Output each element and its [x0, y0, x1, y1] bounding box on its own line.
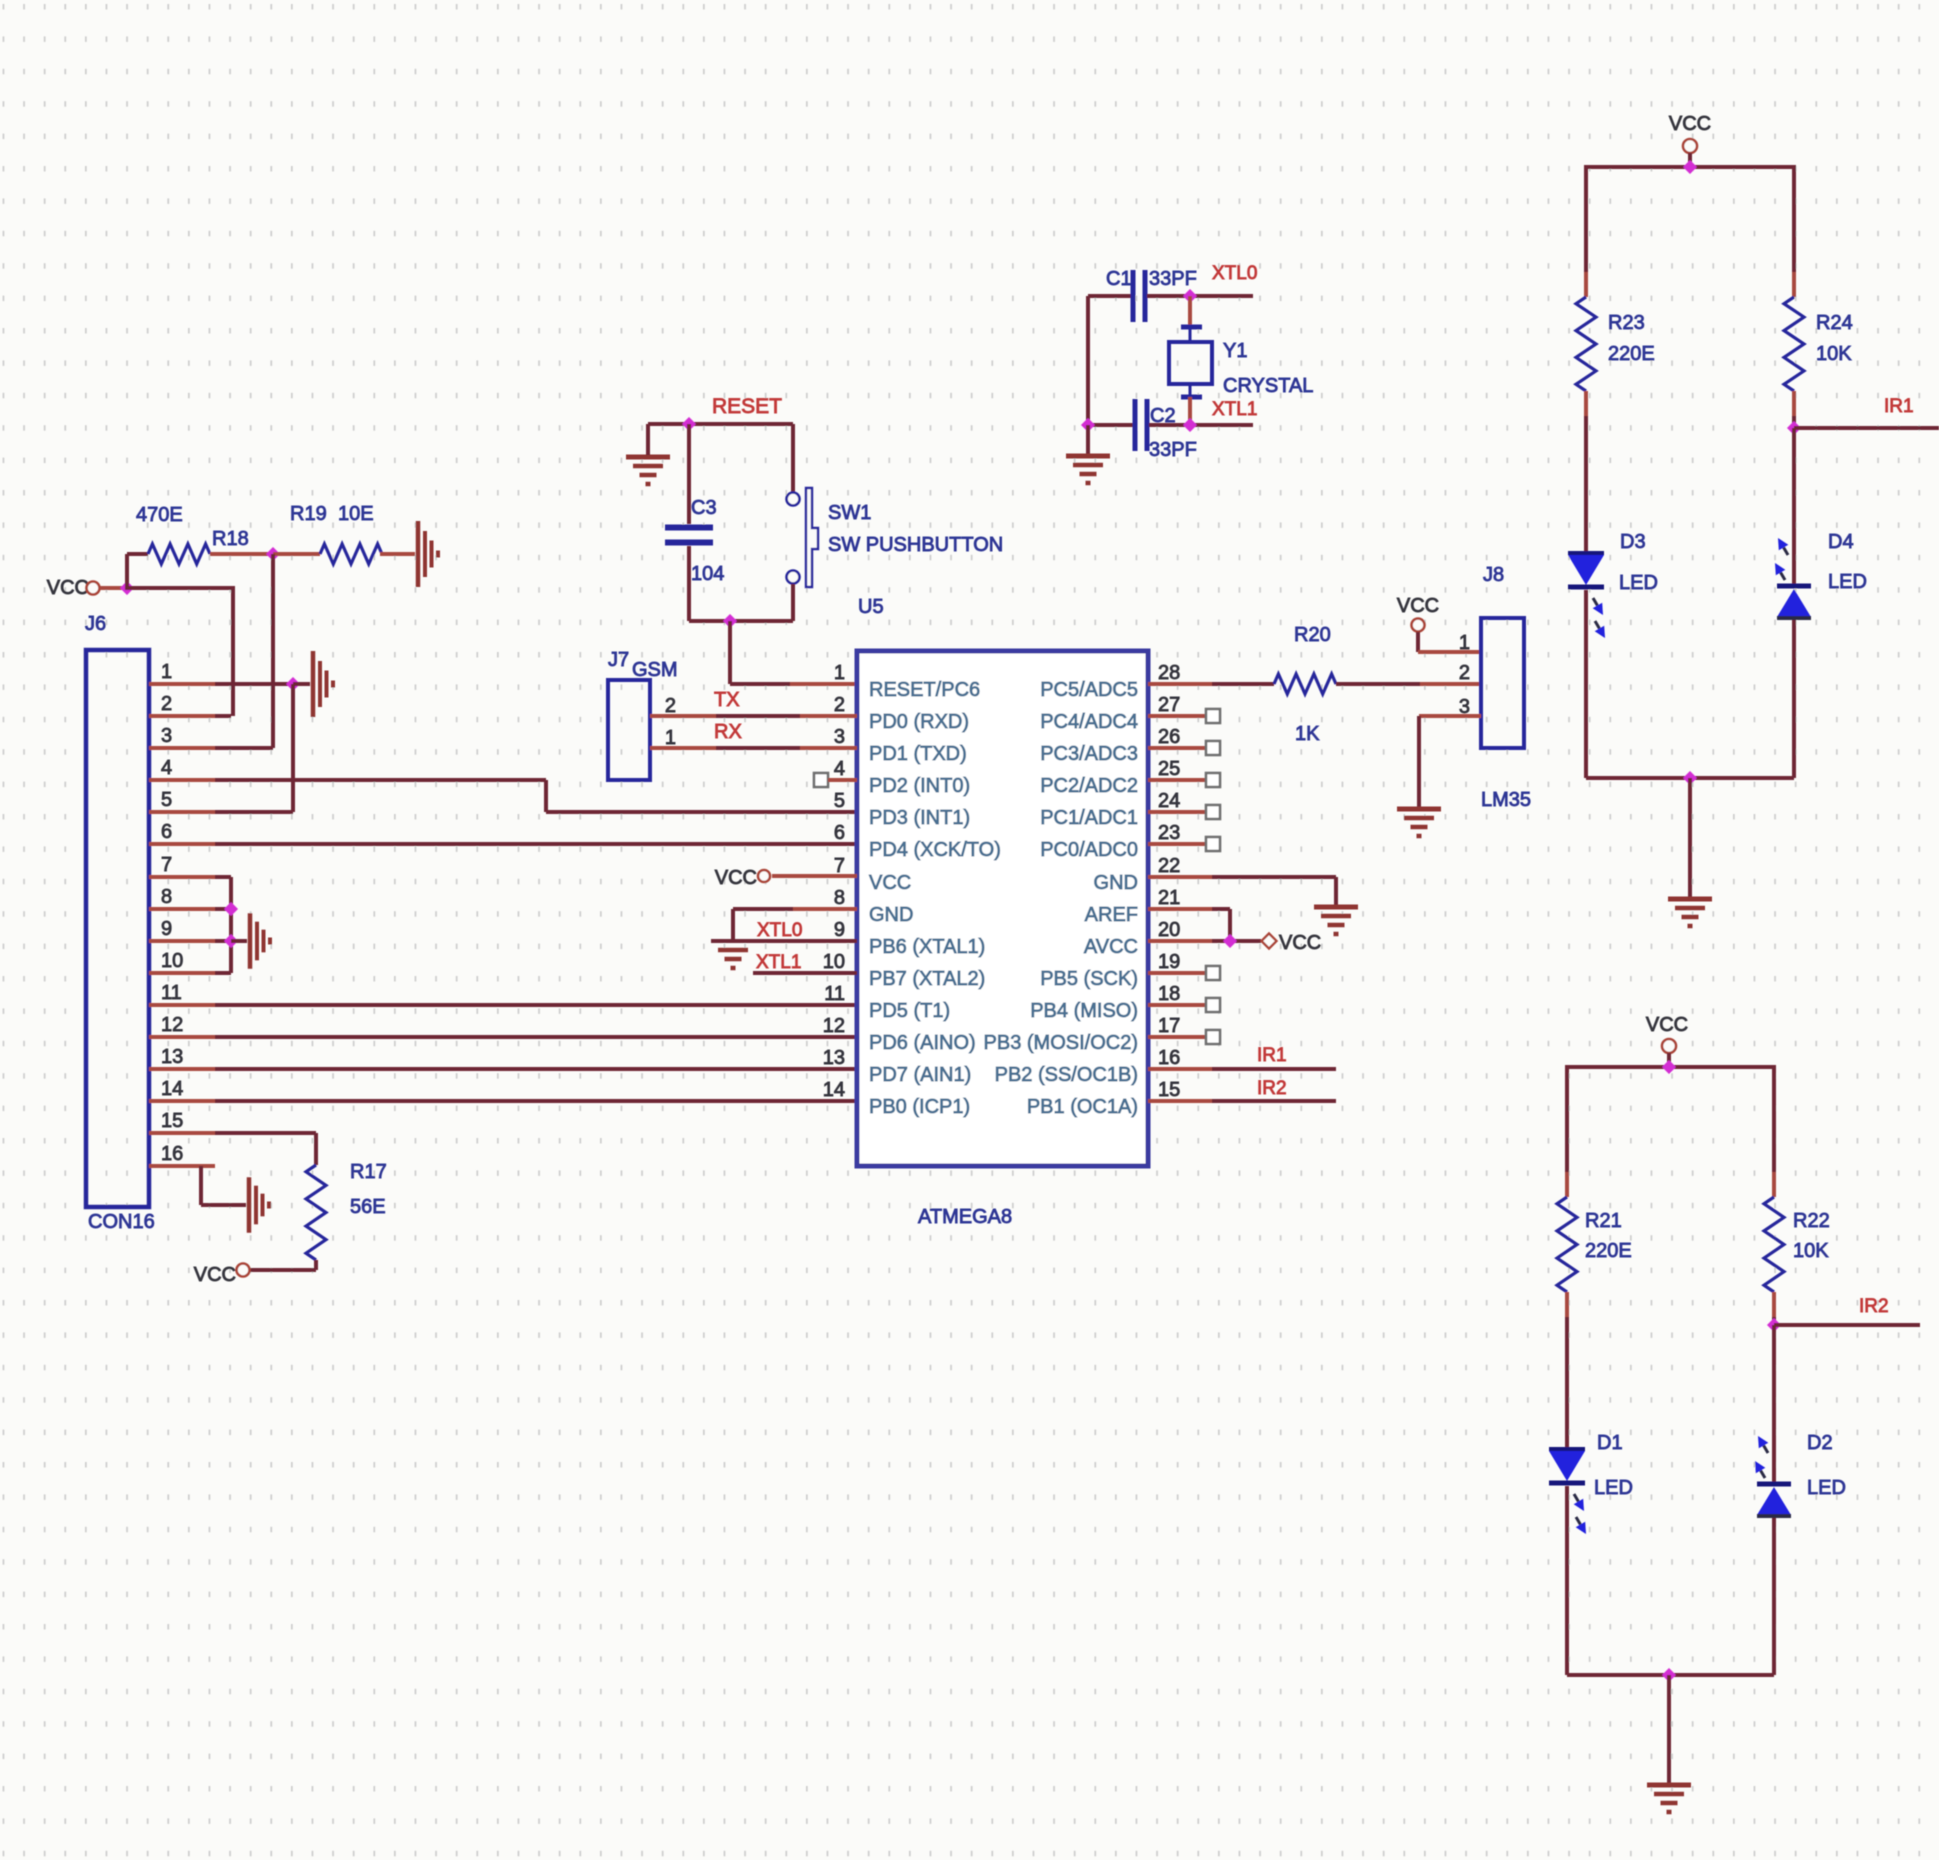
pin number 9 (U5) — [834, 919, 845, 941]
wire IR2 node to D2 — [1772, 1325, 1776, 1482]
svg-text:VCC: VCC — [1669, 113, 1711, 135]
svg-text:8: 8 — [834, 887, 845, 909]
pin number 22 (U5) — [1158, 855, 1180, 877]
pin number 7 (J6) — [161, 854, 172, 876]
value 220E — [1608, 343, 1655, 365]
junction RESET/C3 node — [682, 417, 696, 431]
wire J6 pin11 to IC pin11 PD5 — [215, 1003, 857, 1007]
value 33PF (C1) — [1149, 268, 1197, 290]
wire R23 top lead — [1584, 272, 1588, 297]
svg-text:22: 22 — [1158, 855, 1180, 877]
svg-text:LED: LED — [1594, 1477, 1633, 1499]
svg-text:15: 15 — [161, 1110, 183, 1132]
svg-text:21: 21 — [1158, 887, 1180, 909]
value LED (D4) — [1828, 571, 1867, 593]
svg-text:PC2/ADC2: PC2/ADC2 — [1040, 775, 1138, 797]
value 220E (R21) — [1585, 1240, 1632, 1262]
wire J6 pin6 to IC pin6 PD4 (stub) — [149, 842, 215, 846]
svg-text:2: 2 — [834, 694, 845, 716]
wire to ground symbol (pins7-10) — [231, 939, 247, 943]
wire C1 left lead — [1088, 294, 1131, 298]
IC U5 ATMEGA8 body — [857, 651, 1148, 1166]
wire J6 pin10 to gnd bus — [215, 971, 231, 975]
resistor R22 — [1764, 1197, 1784, 1292]
wire IC pin1 stub — [790, 682, 857, 686]
svg-text:5: 5 — [834, 790, 845, 812]
svg-text:C3: C3 — [691, 497, 717, 519]
wire IR1 node to D4 — [1792, 428, 1796, 584]
ground (RESET net) — [626, 457, 670, 484]
svg-text:10K: 10K — [1816, 343, 1852, 365]
resistor R24 — [1784, 297, 1804, 391]
svg-text:26: 26 — [1158, 726, 1180, 748]
wire VCC node up to R18 — [125, 554, 129, 590]
junction IR1 node — [1787, 421, 1801, 435]
wire U5 pin4 stub — [828, 778, 857, 782]
svg-text:PC4/ADC4: PC4/ADC4 — [1040, 711, 1138, 733]
wire D1 to bottom bus — [1565, 1486, 1569, 1675]
junction R18/R19/pin3 node — [266, 547, 280, 561]
svg-text:27: 27 — [1158, 694, 1180, 716]
wire down to ground (crystal) — [1086, 425, 1090, 455]
svg-text:12: 12 — [161, 1014, 183, 1036]
no-connect square (U5 pin 4 PD2) — [814, 773, 828, 787]
svg-text:J8: J8 — [1483, 564, 1504, 586]
pin 1 name RESET/PC6 (U5) — [869, 679, 980, 701]
label Y1 — [1223, 340, 1247, 362]
label SW1 — [828, 502, 871, 524]
value ATMEGA8 — [918, 1206, 1012, 1228]
power VCC (R17 bottom) — [194, 1264, 250, 1287]
value 470E — [136, 504, 183, 526]
pin 3 name PD1 (TXD) (U5) — [869, 743, 967, 765]
svg-text:10: 10 — [161, 950, 183, 972]
svg-text:LM35: LM35 — [1481, 789, 1531, 811]
ground (U5 pin22) — [1314, 907, 1358, 934]
wire J6 pin7 to gnd bus (stub) — [149, 875, 215, 879]
wire J6 pin2 to VCC drop — [215, 714, 231, 718]
wire pin22 GND run — [1212, 875, 1336, 879]
pin 5 name PD3 (INT1) (U5) — [869, 807, 970, 829]
wire J6 pin15 to R17 — [215, 1131, 316, 1135]
wire R18 left lead — [127, 552, 148, 556]
pin 11 name PD5 (T1) (U5) — [869, 1000, 950, 1022]
wire J6 pin14 to IC pin14 PB0 — [215, 1099, 857, 1103]
wire ground up — [646, 424, 650, 455]
value 10E — [338, 503, 374, 525]
power VCC (IR2 block) — [1646, 1014, 1688, 1053]
wire caps left vertical — [1086, 296, 1090, 425]
svg-text:PB4 (MISO): PB4 (MISO) — [1030, 1000, 1138, 1022]
svg-text:10: 10 — [823, 951, 845, 973]
pin 8 name GND (U5) — [869, 904, 913, 926]
svg-text:TX: TX — [714, 689, 740, 711]
wire J6 pin13 to IC pin13 PD7 — [215, 1067, 857, 1071]
label R22 — [1793, 1210, 1830, 1232]
svg-text:J7: J7 — [608, 649, 629, 671]
svg-text:9: 9 — [161, 918, 172, 940]
svg-text:VCC: VCC — [715, 867, 757, 889]
resistor R19 — [320, 544, 382, 564]
power VCC (U5 pin 7) — [715, 867, 770, 889]
wire J6 pin5 to ground node — [215, 810, 293, 814]
wire J6 pin5 to ground node (stub) — [149, 810, 215, 814]
net label RX — [714, 721, 742, 743]
svg-text:RESET: RESET — [712, 395, 782, 418]
LED D4 (photodiode) — [1775, 538, 1811, 618]
pin number 5 (U5) — [834, 790, 845, 812]
svg-text:SW1: SW1 — [828, 502, 871, 524]
wire R17 top lead — [314, 1133, 318, 1165]
wire J7 pin2 stub — [650, 714, 716, 718]
svg-text:PD4 (XCK/TO): PD4 (XCK/TO) — [869, 839, 1001, 861]
svg-text:7: 7 — [834, 855, 845, 877]
resistor R21 — [1557, 1197, 1577, 1292]
wire D3 to bottom bus — [1584, 590, 1588, 778]
pin number 7 (U5) — [834, 855, 845, 877]
svg-text:11: 11 — [824, 983, 845, 1005]
ground (IR2 block) — [1647, 1785, 1691, 1812]
wire J6 pin15 to R17 (stub) — [149, 1131, 215, 1135]
wire RX to U5 pin3 — [716, 746, 800, 750]
label CON16 — [88, 1211, 155, 1233]
net label IR1 (U5 pin16) — [1257, 1045, 1287, 1066]
svg-text:PC5/ADC5: PC5/ADC5 — [1040, 679, 1138, 701]
wire left branch down — [1584, 165, 1588, 272]
no-connect square (U5 pin 17) — [1206, 1030, 1220, 1044]
pin 14 name PB0 (ICP1) (U5) — [869, 1096, 970, 1118]
svg-text:1: 1 — [1459, 632, 1470, 654]
svg-text:GND: GND — [869, 904, 913, 926]
pin 9 name PB6 (XTAL1) (U5) — [869, 936, 985, 958]
wire R17 to VCC — [250, 1268, 316, 1272]
svg-text:SW PUSHBUTTON: SW PUSHBUTTON — [828, 534, 1003, 556]
label D3 — [1620, 531, 1646, 553]
label R17 — [350, 1161, 387, 1183]
wire RX stub at U5 — [800, 746, 857, 750]
wire R21 bottom lead — [1565, 1292, 1569, 1317]
pin number 9 (J6) — [161, 918, 172, 940]
svg-text:XTL0: XTL0 — [1212, 263, 1257, 284]
pin 6 name PD4 (XCK/TO) (U5) — [869, 839, 1001, 861]
pin 13 name PD7 (AIN1) (U5) — [869, 1064, 971, 1086]
wire C3 top lead — [687, 424, 691, 524]
no-connect square (U5 pin 25) — [1206, 773, 1220, 787]
wire SW1 bottom lead — [791, 584, 795, 621]
wire right branch down (IR2) — [1772, 1065, 1776, 1172]
pin 15 name PB1 (OC1A) (U5) — [1027, 1096, 1138, 1118]
pin 7 name VCC (U5) — [869, 872, 911, 894]
value 33PF (C2) — [1149, 439, 1197, 461]
pin 24 name PC1/ADC1 (U5) — [1040, 807, 1138, 829]
svg-text:2: 2 — [161, 693, 172, 715]
svg-text:XTL1: XTL1 — [1212, 399, 1257, 420]
svg-text:56E: 56E — [350, 1196, 386, 1218]
wire crystal bottom lead — [1188, 397, 1192, 425]
value LM35 — [1481, 789, 1531, 811]
wire J8 pin2 stub — [1420, 682, 1481, 686]
wire C2 left lead — [1088, 423, 1133, 427]
wire IR2 net right — [1774, 1323, 1920, 1327]
wire C2 to XTL1 — [1149, 423, 1253, 427]
wire ground node down to pin5 row — [291, 684, 295, 812]
pin number 8 (J6) — [161, 886, 172, 908]
ground (J6 pin16) — [249, 1177, 269, 1232]
wire J6 pin12 to IC pin12 PD6 — [215, 1035, 857, 1039]
wire jog to IC pin5 PD3 — [546, 810, 857, 814]
svg-text:7: 7 — [161, 854, 172, 876]
wire U5 pin15 stub — [1148, 1099, 1212, 1103]
pin number 18 (U5) — [1158, 983, 1180, 1005]
wire C1 to XTL0 — [1147, 294, 1253, 298]
svg-text:1: 1 — [834, 662, 845, 684]
ground (U5 pin8/9) — [718, 950, 748, 968]
capacitor C1 — [1131, 270, 1148, 322]
pin number 11 (J6) — [161, 982, 182, 1004]
pin number 2 (J6) — [161, 693, 172, 715]
wire down to ground (IR2) — [1667, 1675, 1671, 1783]
net label XTL1 (crystal) — [1212, 399, 1257, 420]
svg-text:24: 24 — [1158, 790, 1180, 812]
net label XTL0 (U5 pin9) — [757, 920, 802, 941]
wire J6 pin8 to gnd bus — [215, 907, 231, 911]
switch SW1 (pushbutton) — [787, 488, 819, 587]
svg-text:Y1: Y1 — [1223, 340, 1247, 362]
wire J8 pin3 down to ground — [1417, 716, 1421, 807]
svg-text:3: 3 — [834, 726, 845, 748]
wire R24 bottom lead — [1792, 391, 1796, 416]
svg-text:14: 14 — [823, 1079, 845, 1101]
wire VCC to bus — [1688, 153, 1692, 167]
connector J6 (CON16) — [86, 650, 149, 1207]
wire R18 to junction — [210, 552, 273, 556]
label J8 — [1483, 564, 1504, 586]
wire pin8 left — [733, 907, 793, 911]
pin number 1 (J8) — [1459, 632, 1470, 654]
wire IR2 top bus — [1567, 1065, 1774, 1069]
ground (IR1 block) — [1668, 899, 1712, 926]
label R19 — [290, 503, 327, 525]
svg-text:GSM: GSM — [632, 659, 678, 681]
pin 17 name PB3 (MOSI/OC2) (U5) — [984, 1032, 1138, 1054]
wire pin16 drop — [199, 1166, 203, 1205]
pin 4 name PD2 (INT0) (U5) — [869, 775, 970, 797]
svg-text:PD3 (INT1): PD3 (INT1) — [869, 807, 970, 829]
wire U5 pin23 stub — [1148, 842, 1206, 846]
svg-text:R19: R19 — [290, 503, 327, 525]
svg-text:PD2 (INT0): PD2 (INT0) — [869, 775, 970, 797]
wire U5 pin16 stub — [1148, 1067, 1212, 1071]
wire left branch down (IR2) — [1565, 1065, 1569, 1172]
resistor R23 — [1576, 297, 1596, 391]
wire U5 pin21 stub — [1148, 907, 1212, 911]
svg-text:PB2 (SS/OC1B): PB2 (SS/OC1B) — [995, 1064, 1138, 1086]
pin 23 name PC0/ADC0 (U5) — [1040, 839, 1138, 861]
pin 2 name PD0 (RXD) (U5) — [869, 711, 969, 733]
svg-text:LED: LED — [1619, 572, 1658, 594]
pin 27 name PC4/ADC4 (U5) — [1040, 711, 1138, 733]
wire D4 to bottom bus — [1792, 620, 1796, 778]
wire U5 pin27 stub — [1148, 714, 1206, 718]
ground (J6 pin1) — [313, 651, 333, 717]
svg-text:33PF: 33PF — [1149, 268, 1197, 290]
wire AVCC to VCC — [1212, 939, 1261, 943]
svg-text:PB0 (ICP1): PB0 (ICP1) — [869, 1096, 970, 1118]
value 10K — [1816, 343, 1852, 365]
junction AREF/AVCC node — [1223, 934, 1237, 948]
pin number 21 (U5) — [1158, 887, 1180, 909]
no-connect square (U5 pin 18) — [1206, 998, 1220, 1012]
net label XTL1 (U5 pin10) — [756, 952, 801, 973]
svg-text:J6: J6 — [85, 613, 106, 635]
wire U5 pin20 stub — [1148, 939, 1212, 943]
svg-text:25: 25 — [1158, 758, 1180, 780]
capacitor C2 — [1133, 399, 1150, 451]
svg-text:VCC: VCC — [47, 577, 89, 599]
svg-text:1: 1 — [161, 661, 172, 683]
pin number 14 (J6) — [161, 1078, 183, 1100]
capacitor C3 — [665, 525, 713, 546]
wire U5 pin19 stub — [1148, 971, 1206, 975]
label D1 — [1597, 1432, 1623, 1454]
pin number 16 (U5) — [1158, 1047, 1180, 1069]
label D4 — [1828, 531, 1854, 553]
label U5 — [858, 596, 884, 618]
no-connect square (U5 pin 23) — [1206, 837, 1220, 851]
pin number 8 (U5) — [834, 887, 845, 909]
pin number 28 (U5) — [1158, 662, 1180, 684]
svg-text:RESET/PC6: RESET/PC6 — [869, 679, 980, 701]
svg-text:19: 19 — [1158, 951, 1180, 973]
wire J6 pin13 to IC pin13 PD7 (stub) — [149, 1067, 215, 1071]
svg-text:R20: R20 — [1294, 624, 1331, 646]
wire U5 pin24 stub — [1148, 810, 1206, 814]
svg-text:IR1: IR1 — [1257, 1045, 1287, 1066]
wire IR1 top bus — [1586, 165, 1794, 169]
wire to D1 — [1565, 1317, 1569, 1450]
pin number 3 (J6) — [161, 725, 172, 747]
svg-text:GND: GND — [1094, 872, 1138, 894]
no-connect square (U5 pin 19) — [1206, 966, 1220, 980]
pin 21 name AREF (U5) — [1085, 904, 1138, 926]
pin 19 name PB5 (SCK) (U5) — [1040, 968, 1138, 990]
pin number 16 (J6) — [161, 1143, 183, 1165]
svg-text:LED: LED — [1807, 1477, 1846, 1499]
svg-text:R23: R23 — [1608, 312, 1645, 334]
pin number 23 (U5) — [1158, 822, 1180, 844]
wire to ground symbol — [293, 682, 310, 686]
wire to IR1 node — [1792, 416, 1796, 428]
wire AREF run — [1212, 907, 1230, 911]
wire R23 bottom lead — [1584, 391, 1588, 416]
label R21 — [1585, 1210, 1622, 1232]
wire J6 pin12 to IC pin12 PD6 (stub) — [149, 1035, 215, 1039]
pin number 3 (U5) — [834, 726, 845, 748]
wire U5 pin26 stub — [1148, 746, 1206, 750]
pin 18 name PB4 (MISO) (U5) — [1030, 1000, 1138, 1022]
connector J7 (GSM) — [608, 680, 650, 780]
svg-text:D2: D2 — [1807, 1432, 1833, 1454]
svg-text:33PF: 33PF — [1149, 439, 1197, 461]
svg-text:15: 15 — [1158, 1079, 1180, 1101]
wire J8 pin3 stub — [1419, 714, 1481, 718]
junction XTL0 node — [1183, 289, 1197, 303]
wire to J8 pin1 — [1418, 650, 1481, 654]
junction RESET bottom node — [723, 614, 737, 628]
wire J6 pin14 to IC pin14 PB0 (stub) — [149, 1099, 215, 1103]
wire J6 pin9 to gnd bus — [215, 939, 231, 943]
resistor R18 — [148, 544, 210, 564]
svg-text:4: 4 — [834, 758, 845, 780]
pin number 5 (J6) — [161, 789, 172, 811]
wire U5 pin25 stub — [1148, 778, 1206, 782]
svg-text:CON16: CON16 — [88, 1211, 155, 1233]
LED D2 (photodiode) — [1755, 1436, 1791, 1516]
pin number 17 (U5) — [1158, 1015, 1180, 1037]
svg-text:IR1: IR1 — [1884, 396, 1914, 417]
pin number 12 (U5) — [823, 1015, 845, 1037]
junction XTL1 node — [1183, 418, 1197, 432]
svg-text:PB6 (XTAL1): PB6 (XTAL1) — [869, 936, 985, 958]
wire TX stub at U5 — [800, 714, 857, 718]
pin number 2 (J8) — [1459, 662, 1470, 684]
pin 12 name PD6 (AINO) (U5) — [869, 1032, 976, 1054]
pin number 20 (U5) — [1158, 919, 1180, 941]
svg-text:PD1 (TXD): PD1 (TXD) — [869, 743, 967, 765]
wire R24 top lead — [1792, 272, 1796, 297]
wire J6 pin1 to ground node — [215, 682, 293, 686]
value GSM — [632, 659, 678, 681]
svg-text:PB3 (MOSI/OC2): PB3 (MOSI/OC2) — [984, 1032, 1138, 1054]
svg-text:10E: 10E — [338, 503, 374, 525]
wire D2 to bottom bus — [1772, 1518, 1776, 1675]
ground (right of R19) — [418, 521, 438, 587]
svg-text:VCC: VCC — [1279, 932, 1321, 954]
pin number 10 (J6) — [161, 950, 183, 972]
wire to D3 — [1584, 416, 1588, 554]
svg-text:9: 9 — [834, 919, 845, 941]
pin number 2 (U5) — [834, 694, 845, 716]
wire J6 pin4 toward IC — [215, 778, 546, 782]
svg-text:PB1 (OC1A): PB1 (OC1A) — [1027, 1096, 1138, 1118]
junction pin9 gnd bus — [224, 934, 238, 948]
svg-text:D1: D1 — [1597, 1432, 1623, 1454]
pin number 1 (J6) — [161, 661, 172, 683]
svg-text:ATMEGA8: ATMEGA8 — [918, 1206, 1012, 1228]
svg-text:17: 17 — [1158, 1015, 1180, 1037]
label C3 — [691, 497, 717, 519]
pin number 1 (U5) — [834, 662, 845, 684]
svg-text:20: 20 — [1158, 919, 1180, 941]
wire J6 pin3 to R18/R19 node (stub) — [149, 746, 215, 750]
svg-text:104: 104 — [691, 563, 724, 585]
pin 20 name AVCC (U5) — [1084, 936, 1138, 958]
wire R20 to J8 pin2 — [1336, 682, 1420, 686]
resistor R17 — [306, 1165, 326, 1260]
pin 22 name GND (U5) — [1094, 872, 1138, 894]
svg-text:PD7 (AIN1): PD7 (AIN1) — [869, 1064, 971, 1086]
svg-text:14: 14 — [161, 1078, 183, 1100]
wire to IR2 node — [1772, 1317, 1776, 1325]
LED D1 — [1549, 1449, 1586, 1534]
pin 16 name PB2 (SS/OC1B) (U5) — [995, 1064, 1138, 1086]
label R18 — [212, 528, 249, 550]
svg-text:1K: 1K — [1295, 723, 1320, 745]
wire J6 pin4 toward IC (stub) — [149, 778, 215, 782]
wire U5 pin8 GND stub — [793, 907, 857, 911]
value 56E — [350, 1196, 386, 1218]
pin 28 name PC5/ADC5 (U5) — [1040, 679, 1138, 701]
